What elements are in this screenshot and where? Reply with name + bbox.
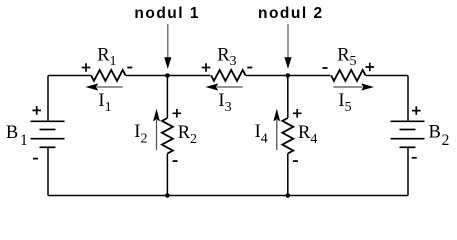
node 2 junction dot [286, 73, 291, 78]
current I5 arrow [333, 83, 374, 90]
R2 plus sign [173, 109, 182, 118]
svg-text:nodul 1: nodul 1 [134, 5, 200, 22]
wire right vertical top [407, 76, 409, 122]
R4 plus sign [293, 109, 302, 118]
current I2 arrow [153, 109, 160, 150]
wire node1 vertical top [166, 76, 168, 119]
svg-text:I2: I2 [134, 122, 147, 147]
wire left vertical bottom [47, 147, 49, 195]
nodul 2 arrow [284, 24, 291, 69]
svg-text:B1: B1 [6, 123, 28, 149]
B1 minus sign [33, 158, 38, 160]
wire top left segment [48, 75, 91, 77]
B1 plus sign [32, 106, 41, 115]
svg-text:B2: B2 [429, 123, 450, 149]
wire top right segment [366, 75, 408, 77]
svg-text:R4: R4 [298, 123, 317, 147]
svg-text:I5: I5 [338, 91, 351, 115]
current I3 arrow [206, 83, 243, 90]
R1 plus sign [82, 63, 91, 72]
node bottom-left junction dot [165, 193, 170, 198]
B2 plus sign [412, 106, 421, 115]
wire node2 left segment [246, 75, 331, 77]
svg-text:R1: R1 [97, 45, 116, 69]
R3 plus sign [202, 63, 211, 72]
R5 plus sign [366, 63, 375, 72]
R2 minus sign [173, 160, 178, 162]
wire bottom [48, 195, 408, 197]
battery B2 [391, 121, 425, 147]
battery B1 [31, 121, 65, 147]
node bottom-right junction dot [286, 193, 291, 198]
wire node2 vertical bottom [287, 154, 289, 196]
resistor R2 [162, 118, 173, 154]
nodul 1 arrow [164, 24, 171, 69]
resistor R3 [211, 70, 245, 81]
R3 minus sign [247, 67, 252, 69]
wire node1 vertical bottom [166, 154, 168, 196]
R5 minus sign [323, 67, 328, 69]
current I1 arrow [86, 83, 123, 90]
svg-text:I4: I4 [255, 122, 268, 147]
wire left vertical top [47, 76, 49, 122]
svg-text:I3: I3 [218, 91, 231, 115]
R1 minus sign [127, 67, 132, 69]
R4 minus sign [293, 160, 298, 162]
svg-text:I1: I1 [98, 91, 111, 115]
wire node2 vertical top [287, 76, 289, 119]
B2 minus sign [412, 157, 417, 159]
svg-text:R5: R5 [337, 45, 356, 69]
svg-text:R2: R2 [178, 123, 197, 147]
svg-text:R3: R3 [217, 45, 236, 69]
current I4 arrow [273, 109, 280, 150]
svg-text:nodul 2: nodul 2 [258, 5, 324, 22]
wire node1 left segment [126, 75, 211, 77]
resistor R1 [91, 70, 125, 81]
wire right vertical bottom [407, 147, 409, 195]
node 1 junction dot [165, 73, 170, 78]
resistor R5 [331, 70, 365, 81]
resistor R4 [282, 118, 293, 154]
